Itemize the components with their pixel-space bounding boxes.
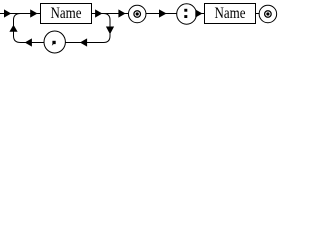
- arrowhead A5 (before colon oval): [159, 9, 167, 17]
- arrowhead A8 (left-pointing, right of comma oval): [80, 38, 87, 46]
- node: colon oval: [177, 4, 197, 24]
- svg-text:Name: Name: [51, 5, 82, 22]
- wire: from colon oval to second Name box: [197, 13, 205, 15]
- node: comma oval: [44, 31, 65, 53]
- node: second Name box: [205, 4, 256, 24]
- arrowhead up (left riser): [9, 25, 17, 32]
- label comma: [52, 41, 56, 46]
- wire: loop left riser (rejoin path): [14, 14, 21, 43]
- arrowhead down (right riser): [106, 27, 114, 35]
- node: first Name box: [41, 4, 92, 24]
- arrowhead A6 (before second Name box): [195, 9, 202, 17]
- arrowhead A3 (after first Name box): [95, 9, 102, 17]
- wire: from double circle 1 to colon oval: [146, 13, 177, 15]
- arrowhead A1 (start): [4, 9, 11, 17]
- wire: bottom line right of comma oval: [65, 42, 103, 44]
- wire: from second Name box to double circle 2: [256, 13, 260, 15]
- svg-text:Name: Name: [215, 5, 246, 22]
- background: [0, 0, 279, 60]
- node: double circle 1 (connector): [128, 5, 146, 23]
- arrowhead A2 (before first Name box): [30, 9, 37, 17]
- label colon dots: [184, 9, 187, 18]
- arrowhead A4 (before double circle 1): [118, 9, 125, 17]
- wire: from first Name box to double circle 1: [92, 13, 129, 15]
- wire: start segment into first Name box: [0, 13, 41, 15]
- wire: loop descend at right (branch down): [104, 14, 111, 43]
- wire: bottom line left of comma oval: [21, 42, 45, 44]
- node: double circle 2 (end connector): [259, 5, 277, 23]
- arrowhead A7 (left-pointing, left of comma oval): [25, 38, 32, 46]
